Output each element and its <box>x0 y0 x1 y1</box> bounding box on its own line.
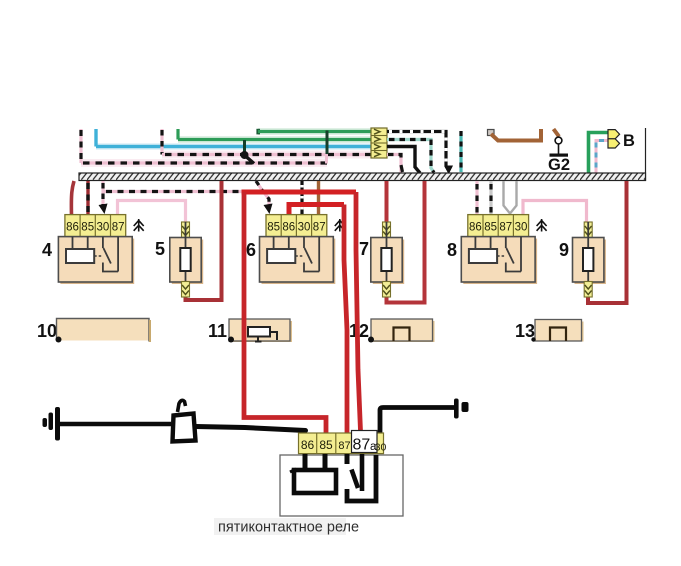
wire: red loop fuse9 bottom to bar <box>588 181 627 303</box>
fuse 5: body <box>170 222 203 296</box>
svg-text:86: 86 <box>469 222 482 234</box>
connector: brown wire terminal square <box>488 130 495 136</box>
wire: pink/black dashed bar to relay8 pin86 <box>475 181 478 215</box>
connector symbol right of relay 8 pins <box>537 219 547 232</box>
connector symbol right of relay 6 pins <box>335 219 345 232</box>
svg-text:86: 86 <box>301 438 315 452</box>
connector B: two yellow terminals <box>608 130 620 148</box>
wire: pink/black dashed bus (lower) horizontal y163 <box>81 161 327 164</box>
ground symbol <box>43 407 61 441</box>
border: right edge line <box>645 128 647 181</box>
relay 6: body <box>260 237 336 284</box>
relay 4: switch contact <box>94 237 118 272</box>
fuse 7: bottom connector <box>383 282 391 298</box>
wire: pink/teal dashed to connector B <box>596 141 608 173</box>
wire: brown jumper to G2 <box>491 129 559 141</box>
wire: pink from relay8 pin30 to fuse9 top <box>523 201 587 223</box>
switch S1 <box>173 400 196 441</box>
wire: wide white/gray loop into relay8 pin87 <box>504 181 517 214</box>
svg-text:30: 30 <box>298 222 311 234</box>
svg-text:87: 87 <box>112 222 125 234</box>
wire: red loop fuse5 bottom to bar <box>186 181 222 300</box>
svg-text:7: 7 <box>359 239 369 259</box>
caption <box>214 518 359 536</box>
wire: pink/black dashed branch bus y191.5 <box>103 190 263 193</box>
svg-text:9: 9 <box>559 240 569 260</box>
wire: brown bar to relay6 pin87 <box>317 181 320 214</box>
fuse 9: body <box>573 222 606 296</box>
svg-text:11: 11 <box>208 321 227 341</box>
relay 8: body <box>461 237 537 284</box>
component 10 box <box>57 319 151 343</box>
node: junction on upper dashed bus <box>241 151 255 164</box>
wire: dark drop x327 from upper green to buses <box>325 131 329 164</box>
five-pin relay: switch contacts <box>347 454 376 501</box>
wire: long red relay6 area to bottom relay pin85 <box>244 192 326 433</box>
fuse 5: bottom connector <box>182 282 190 298</box>
svg-text:85: 85 <box>319 438 333 452</box>
relay 8: pin header <box>468 215 529 237</box>
wire: pink/black dashed bar to relay4 pin30 with branch bus <box>99 181 108 214</box>
fuse 7: body <box>371 222 404 296</box>
relay 8: switch contact <box>497 237 521 272</box>
svg-text:6: 6 <box>246 240 256 260</box>
component 12 box <box>371 319 435 342</box>
svg-text:87: 87 <box>313 222 326 234</box>
svg-text:пятиконтактное реле: пятиконтактное реле <box>218 520 359 536</box>
wire: solid black from column cell3 to bar <box>387 147 420 174</box>
node dot at 11 <box>228 337 234 343</box>
node dot at 13 <box>531 337 535 341</box>
svg-text:4: 4 <box>42 240 52 260</box>
connector symbol right of relay 4 pins <box>134 219 144 232</box>
wire: teal/black dashed vertical x461 to bar <box>459 131 462 172</box>
wire: teal/black dashed from column cell2 to bar <box>387 140 434 173</box>
relay 6: coil <box>267 237 295 263</box>
svg-text:5: 5 <box>155 239 165 259</box>
wire: black/white dashed bar to relay6 pin30 <box>300 181 303 214</box>
component 11 box <box>229 319 292 342</box>
five-pin relay: 87a label box <box>352 431 378 454</box>
svg-text:85: 85 <box>484 222 497 234</box>
svg-text:85: 85 <box>267 222 280 234</box>
fuse 7: top connector <box>383 222 391 238</box>
halo washes <box>81 132 371 164</box>
relay 6: pin header <box>266 215 327 237</box>
fuse 5: top connector <box>182 222 190 238</box>
svg-text:86: 86 <box>66 222 79 234</box>
wire: bottom relay pin30 to right connector <box>380 408 454 434</box>
wire: cyan bus horizontal y146.5 <box>96 145 371 148</box>
wire: long red to bottom relay pin87a <box>356 192 361 431</box>
connector at right <box>454 399 469 419</box>
connector block: 4-cell junction column <box>371 128 387 158</box>
wire: ground to switch <box>59 422 171 427</box>
wire: pink/black dashed bus (upper) horizontal y154.5 <box>162 153 371 156</box>
component 13 internal contact <box>550 328 566 342</box>
relay 4: coil <box>66 237 94 263</box>
wire: red horizontal no.2 y204 to relay6 pin86 <box>289 205 344 216</box>
svg-text:30: 30 <box>515 222 528 234</box>
wire: pink/black dashed bus (upper) riser x162 <box>160 129 163 155</box>
wire: green to connector B <box>589 133 609 173</box>
wire: pink/black dashed bar to relay6 pin85 (arrow) <box>256 181 273 214</box>
svg-text:10: 10 <box>37 321 57 341</box>
component 11 internal resistor <box>248 327 277 342</box>
svg-text:87: 87 <box>338 440 350 452</box>
wire: switch to bottom relay pin86 <box>196 427 306 431</box>
wire: green bus riser x178 <box>176 129 179 140</box>
wire: red loop fuse7 bottom to bar <box>387 181 425 303</box>
relay 4: body <box>58 237 134 284</box>
wire: red horizontal no.1 y192 <box>244 190 356 193</box>
node dot at 10 <box>56 337 62 343</box>
wire: pink/black dashed from column cell4 to bar <box>387 155 403 174</box>
arrow into bar top at x449 <box>445 166 453 174</box>
wire: dark red bar to relay4 pin86 <box>71 181 74 215</box>
five-pin relay: outline box <box>280 455 403 516</box>
relay 8: coil <box>469 237 497 263</box>
node dot at 12 <box>368 337 374 343</box>
wire: pink from relay4 pin87 to fuse5 <box>118 201 186 223</box>
harness bar (hatched) <box>79 173 646 181</box>
wire: gray/black dashed bar to relay8 pin85 <box>489 181 492 215</box>
svg-text:8: 8 <box>447 240 457 260</box>
wire: red/black dashed bar to relay4 pin85 <box>86 181 89 215</box>
relay 4: pin header <box>65 215 126 237</box>
svg-text:30: 30 <box>97 222 110 234</box>
wire: pink/black dashed bus (lower), left riser x81 <box>79 129 82 163</box>
wire: green bus horizontal y139.5 <box>178 138 371 141</box>
svg-text:87: 87 <box>499 222 512 234</box>
wire: red bar to fuse7 top <box>385 181 389 222</box>
svg-text:85: 85 <box>81 222 94 234</box>
svg-text:30: 30 <box>375 442 387 454</box>
fuse 9: bottom connector <box>584 282 592 298</box>
fuse 9: top connector <box>584 222 592 238</box>
wire: long red to bottom relay pin87 <box>344 205 347 437</box>
component 13 box <box>535 320 584 342</box>
wire: black/white dashed from column cell1 to bar <box>387 132 453 175</box>
svg-text:87: 87 <box>353 437 371 454</box>
wire: upper green bus y131.5 from x258 <box>256 129 371 135</box>
svg-text:G2: G2 <box>548 156 570 174</box>
wire: cyan bus riser x96 <box>94 129 97 147</box>
svg-text:B: B <box>623 132 635 150</box>
five-pin relay: coil <box>290 454 336 493</box>
relay 6: switch contact <box>295 237 319 272</box>
component 12 internal contact <box>394 328 410 342</box>
wire: dark green drop x244 from green bus to junction <box>243 140 246 152</box>
five-pin relay: pin header <box>299 433 384 454</box>
svg-text:86: 86 <box>282 222 295 234</box>
ground terminal G2: circle <box>550 137 569 157</box>
